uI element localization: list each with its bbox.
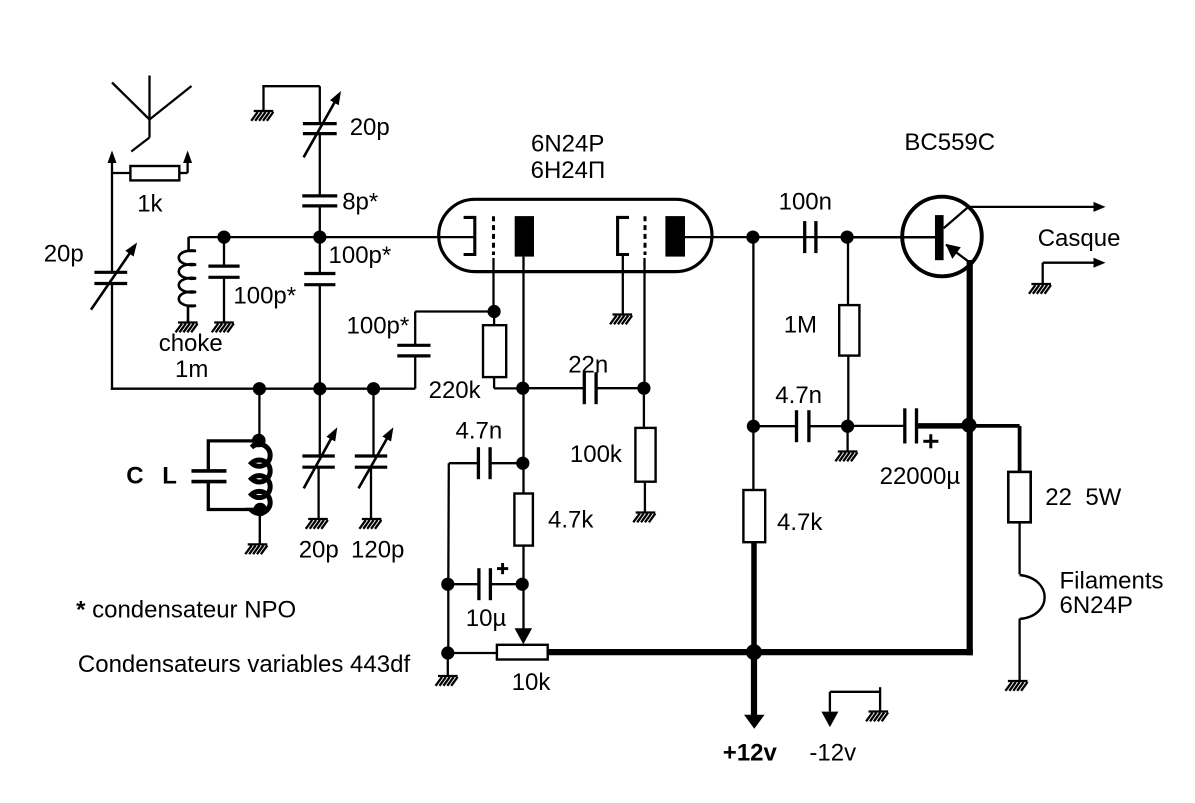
svg-text:4.7n: 4.7n bbox=[456, 418, 503, 445]
svg-text:22n: 22n bbox=[568, 351, 608, 378]
svg-text:C: C bbox=[126, 463, 143, 490]
svg-text:4.7n: 4.7n bbox=[775, 382, 822, 409]
svg-text:1m: 1m bbox=[175, 356, 208, 383]
svg-text:Casque: Casque bbox=[1038, 225, 1121, 252]
svg-text:1k: 1k bbox=[137, 190, 163, 217]
svg-text:220k: 220k bbox=[429, 377, 482, 404]
svg-text:20p: 20p bbox=[350, 114, 390, 141]
svg-text:Filaments: Filaments bbox=[1060, 567, 1164, 594]
svg-text:20p: 20p bbox=[299, 537, 339, 564]
svg-text:8p*: 8p* bbox=[342, 189, 378, 216]
svg-text:20p: 20p bbox=[44, 241, 84, 268]
svg-text:100p*: 100p* bbox=[329, 242, 392, 269]
svg-text:choke: choke bbox=[159, 330, 223, 357]
svg-text:100k: 100k bbox=[570, 441, 623, 468]
svg-text:-12v: -12v bbox=[809, 739, 856, 766]
svg-text:120p: 120p bbox=[351, 537, 404, 564]
svg-text:BC559C: BC559C bbox=[904, 129, 995, 156]
svg-text:6N24P: 6N24P bbox=[1060, 592, 1133, 619]
svg-text:6Н24П: 6Н24П bbox=[531, 157, 606, 184]
svg-text:100p*: 100p* bbox=[233, 283, 296, 310]
svg-text:+12v: +12v bbox=[723, 739, 778, 766]
svg-text:Condensateurs variables 443df: Condensateurs variables 443df bbox=[78, 651, 411, 678]
svg-text:10µ: 10µ bbox=[466, 605, 507, 632]
svg-text:100n: 100n bbox=[779, 189, 832, 216]
svg-text:22000µ: 22000µ bbox=[880, 463, 961, 490]
svg-text:22 5W: 22 5W bbox=[1045, 484, 1121, 511]
svg-text:10k: 10k bbox=[512, 669, 552, 696]
svg-text:4.7k: 4.7k bbox=[777, 509, 823, 536]
svg-text:* condensateur NPO: * condensateur NPO bbox=[76, 597, 296, 624]
svg-text:4.7k: 4.7k bbox=[548, 507, 594, 534]
svg-text:L: L bbox=[162, 463, 177, 490]
svg-text:100p*: 100p* bbox=[347, 313, 410, 340]
svg-text:6N24P: 6N24P bbox=[531, 131, 604, 158]
svg-text:1M: 1M bbox=[784, 312, 817, 339]
